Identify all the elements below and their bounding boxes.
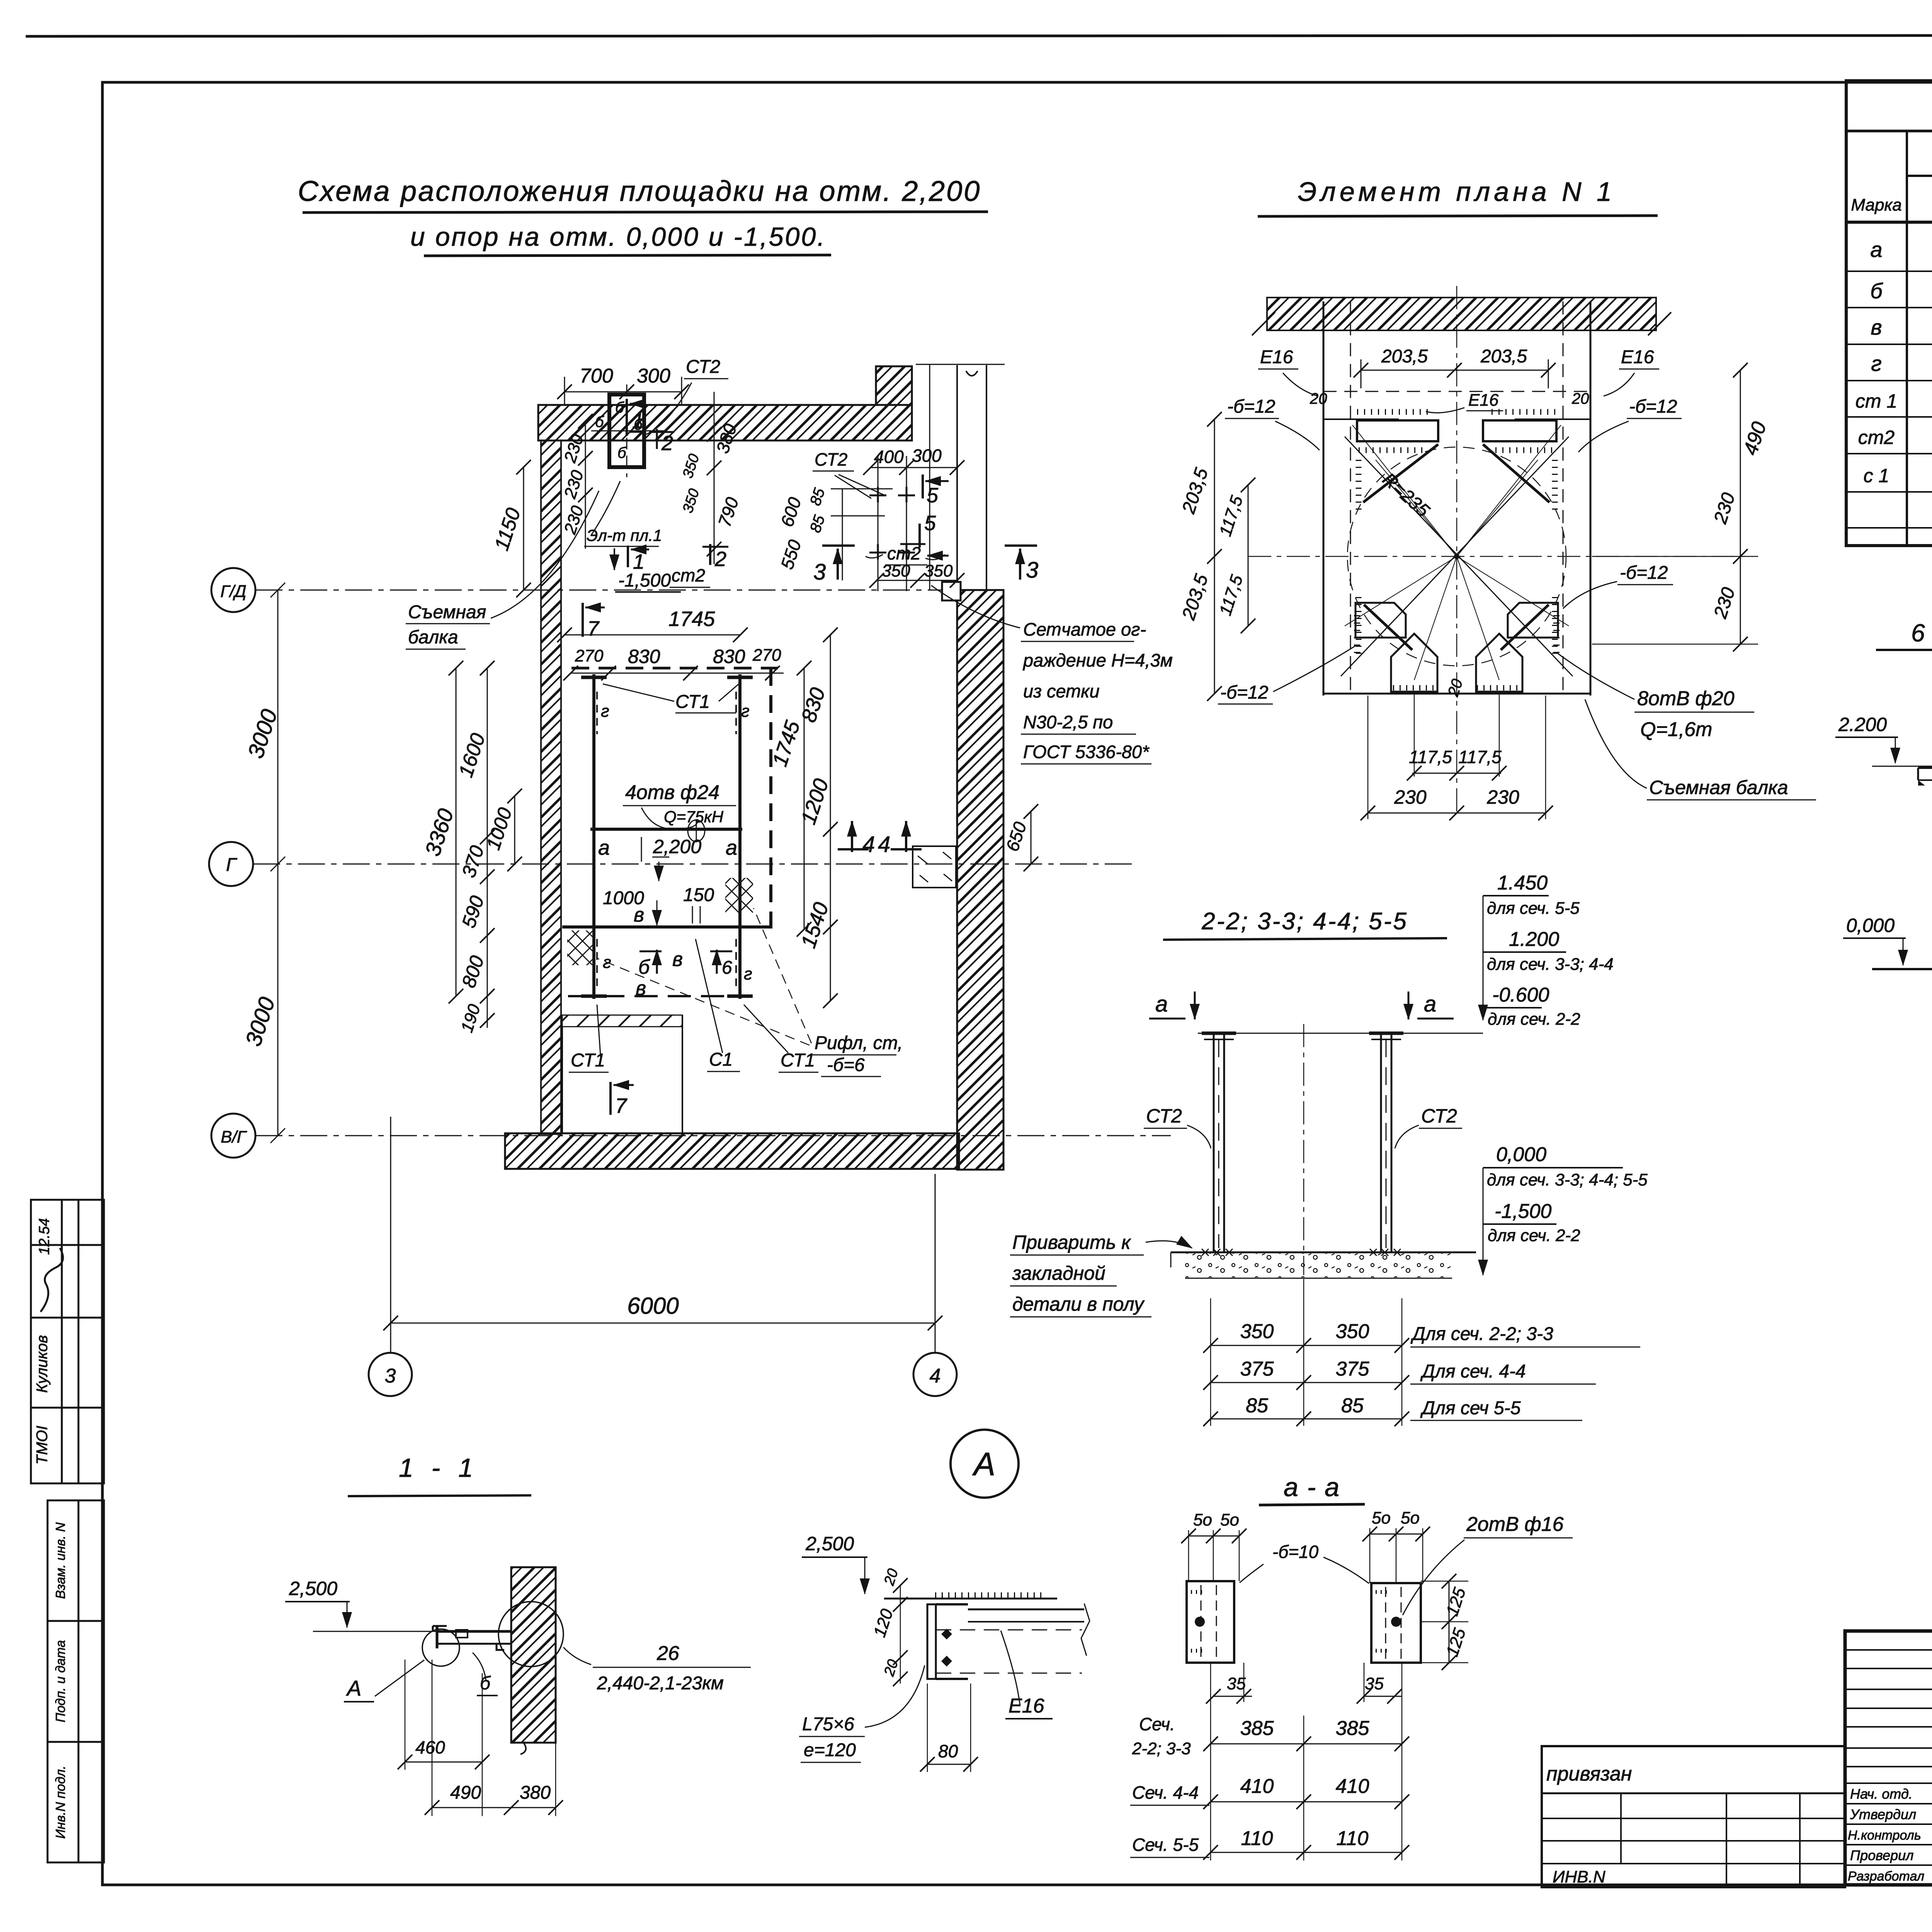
svg-text:3: 3 bbox=[385, 1365, 396, 1387]
svg-text:Разработал: Разработал bbox=[1848, 1869, 1924, 1884]
svg-text:2,200: 2,200 bbox=[653, 836, 701, 857]
svg-text:г: г bbox=[741, 702, 750, 721]
svg-text:в: в bbox=[636, 977, 646, 1000]
svg-text:СТ2: СТ2 bbox=[686, 357, 720, 377]
svg-text:80: 80 bbox=[938, 1741, 958, 1761]
dim 700 300 above mini element bbox=[565, 391, 682, 393]
radial thin rays bbox=[1345, 425, 1569, 680]
svg-text:5: 5 bbox=[924, 512, 936, 535]
svg-text:для сеч. 5-5: для сеч. 5-5 bbox=[1487, 899, 1580, 918]
svg-text:Съемная балка: Съемная балка bbox=[1649, 777, 1788, 798]
svg-text:110: 110 bbox=[1241, 1827, 1273, 1850]
svg-text:0,000: 0,000 bbox=[1496, 1143, 1546, 1166]
svg-text:-б=12: -б=12 bbox=[1227, 396, 1275, 417]
svg-text:270: 270 bbox=[752, 646, 781, 665]
dim 50 50 left bbox=[1189, 1536, 1239, 1537]
svg-text:385: 385 bbox=[1336, 1717, 1370, 1740]
dim 650 rotated bbox=[1031, 811, 1032, 864]
chamfer thick diagonals bbox=[1363, 444, 1438, 502]
svg-text:а - а: а - а bbox=[1284, 1473, 1340, 1502]
svg-text:Схема расположения площадки на: Схема расположения площадки на отм. 2,20… bbox=[298, 175, 981, 207]
svg-text:Подп. и дата: Подп. и дата bbox=[53, 1640, 68, 1723]
svg-text:N30-2,5 по: N30-2,5 по bbox=[1023, 712, 1113, 732]
svg-text:а: а bbox=[598, 836, 610, 859]
bottom dims 117,5 117,5 bbox=[1414, 694, 1415, 777]
svg-text:230: 230 bbox=[1394, 786, 1427, 808]
top wall pilaster bbox=[876, 366, 912, 405]
svg-text:410: 410 bbox=[1240, 1775, 1274, 1798]
svg-text:6 - 6: 6 - 6 bbox=[1911, 619, 1932, 647]
svg-text:5o: 5o bbox=[1220, 1510, 1239, 1529]
g-brace small dashes bbox=[596, 692, 598, 734]
section mark 5 lower bbox=[918, 524, 921, 548]
svg-text:ГОСТ 5336-80*: ГОСТ 5336-80* bbox=[1023, 742, 1150, 762]
svg-text:385: 385 bbox=[1240, 1717, 1274, 1740]
axis circle 4 bbox=[913, 1353, 957, 1396]
svg-text:375: 375 bbox=[1336, 1358, 1370, 1380]
svg-text:Q=75кН: Q=75кН bbox=[664, 808, 724, 826]
svg-text:-б=12: -б=12 bbox=[1220, 682, 1268, 703]
svg-text:ИНВ.N: ИНВ.N bbox=[1553, 1867, 1605, 1886]
left column bbox=[1213, 1033, 1215, 1252]
center dot bbox=[1454, 554, 1459, 559]
top wall band bbox=[538, 405, 912, 440]
svg-text:20: 20 bbox=[1310, 390, 1327, 407]
pentagon plate left bbox=[1391, 634, 1437, 692]
platform bottom edge bbox=[568, 995, 742, 997]
svg-text:С1: С1 bbox=[709, 1049, 733, 1070]
wall corner notch bbox=[942, 582, 961, 600]
svg-text:и опор на отм. 0,000 и -1,500.: и опор на отм. 0,000 и -1,500. bbox=[410, 222, 826, 252]
svg-text:Г: Г bbox=[226, 855, 238, 875]
slab concrete bbox=[1171, 1252, 1476, 1253]
riffle steel cross-hatch squares bbox=[725, 878, 753, 913]
frame horizontals bbox=[1323, 418, 1399, 420]
svg-text:830: 830 bbox=[628, 646, 660, 667]
svg-text:б: б bbox=[617, 444, 627, 461]
svg-text:А: А bbox=[972, 1446, 995, 1482]
svg-text:СТ2: СТ2 bbox=[815, 449, 847, 469]
svg-text:в: в bbox=[1871, 315, 1882, 339]
signature squiggle bbox=[41, 1248, 63, 1312]
svg-text:с 1: с 1 bbox=[1864, 465, 1889, 486]
svg-text:ТМОI: ТМОI bbox=[34, 1426, 51, 1464]
svg-text:ст 1: ст 1 bbox=[1855, 390, 1897, 412]
svg-text:150: 150 bbox=[683, 885, 714, 905]
svg-text:-1,500: -1,500 bbox=[618, 570, 671, 591]
svg-text:А: А bbox=[346, 1676, 361, 1700]
top line with weld hatch bbox=[884, 1598, 1057, 1600]
svg-text:5o: 5o bbox=[1401, 1509, 1420, 1527]
pentagon plate right bbox=[1476, 634, 1522, 692]
svg-text:Куликов: Куликов bbox=[34, 1335, 51, 1393]
svg-text:460: 460 bbox=[415, 1737, 445, 1757]
right dim chain outer 830 1200 1540 bbox=[830, 635, 831, 1001]
section mark 4 left bbox=[851, 821, 853, 852]
svg-text:-б=12: -б=12 bbox=[1629, 396, 1677, 417]
center axes bbox=[1456, 286, 1458, 815]
lower room hatched strip bbox=[562, 1015, 682, 1027]
svg-text:СТ1: СТ1 bbox=[781, 1050, 815, 1071]
svg-text:7: 7 bbox=[615, 1094, 628, 1117]
section mark 7 lower bbox=[609, 1082, 612, 1115]
svg-text:Сетчатое ог-: Сетчатое ог- bbox=[1023, 619, 1146, 639]
svg-text:Сеч. 5-5: Сеч. 5-5 bbox=[1132, 1835, 1199, 1855]
vertical dim 3000/3000 bbox=[270, 583, 285, 1143]
section mark 4 right bbox=[905, 821, 907, 852]
svg-text:СТ1: СТ1 bbox=[675, 692, 710, 712]
dim 270 830 830 270 bbox=[571, 673, 784, 674]
dim 1150 bbox=[523, 467, 524, 590]
right dim chain inner 1745 bbox=[804, 668, 805, 929]
svg-text:а: а bbox=[726, 836, 737, 859]
svg-text:1 - 1: 1 - 1 bbox=[399, 1453, 478, 1483]
right wall bbox=[957, 590, 1003, 1170]
section mark 3 right bbox=[1019, 549, 1021, 580]
svg-text:-б=10: -б=10 bbox=[1272, 1542, 1319, 1562]
svg-text:Сеч. 4-4: Сеч. 4-4 bbox=[1132, 1782, 1199, 1803]
svg-text:26: 26 bbox=[656, 1642, 679, 1665]
svg-text:-б=12: -б=12 bbox=[1620, 563, 1668, 583]
ground line bbox=[1872, 968, 1932, 970]
sheet outer border top bbox=[27, 35, 1932, 36]
svg-text:3: 3 bbox=[813, 560, 826, 585]
column cap marks bbox=[581, 676, 607, 679]
dim 6000 bbox=[391, 1323, 935, 1324]
svg-text:а: а bbox=[1870, 237, 1882, 262]
svg-text:Рифл, ст,: Рифл, ст, bbox=[815, 1033, 903, 1053]
left margin stamp table upper bbox=[31, 1200, 104, 1483]
svg-text:2,440-2,1-23км: 2,440-2,1-23км bbox=[597, 1673, 724, 1694]
section mark 2 right of mini element bbox=[656, 429, 658, 449]
axis circle G bbox=[209, 842, 253, 886]
beam bbox=[437, 1630, 511, 1633]
svg-text:Приварить к: Приварить к bbox=[1012, 1231, 1131, 1253]
svg-text:350: 350 bbox=[1336, 1320, 1369, 1343]
frame verticals bbox=[1323, 301, 1325, 696]
section mark 2 lower bbox=[709, 544, 711, 565]
svg-text:Для сеч. 2-2; 3-3: Для сеч. 2-2; 3-3 bbox=[1410, 1324, 1553, 1344]
small T symbols bbox=[869, 487, 886, 502]
svg-text:4: 4 bbox=[930, 1365, 941, 1387]
svg-text:Нач. отд.: Нач. отд. bbox=[1850, 1786, 1913, 1802]
beam v bbox=[562, 925, 772, 929]
svg-text:закладной: закладной bbox=[1012, 1262, 1105, 1284]
svg-text:Е16: Е16 bbox=[1260, 347, 1293, 367]
svg-text:детали в полу: детали в полу bbox=[1012, 1293, 1145, 1315]
svg-text:700: 700 bbox=[580, 365, 613, 387]
svg-text:Проверил: Проверил bbox=[1850, 1847, 1914, 1863]
dim 1000 rotated bbox=[514, 796, 515, 864]
svg-text:е=120: е=120 bbox=[804, 1740, 856, 1760]
svg-text:раждение Н=4,3м: раждение Н=4,3м bbox=[1022, 650, 1173, 670]
svg-text:-1,500: -1,500 bbox=[1495, 1200, 1552, 1223]
dim table a-a bbox=[1210, 1663, 1211, 1861]
svg-text:35: 35 bbox=[1227, 1674, 1246, 1693]
dim 203,5 203,5 top bbox=[1361, 370, 1548, 371]
svg-text:2: 2 bbox=[714, 548, 726, 571]
svg-text:г: г bbox=[744, 964, 752, 983]
svg-text:2,500: 2,500 bbox=[805, 1533, 854, 1554]
svg-text:ст2: ст2 bbox=[887, 543, 921, 563]
svg-text:350: 350 bbox=[924, 561, 953, 580]
svg-text:-0.600: -0.600 bbox=[1492, 984, 1549, 1006]
axis circle G/D bbox=[211, 568, 255, 612]
weld x marks at bases bbox=[1202, 1249, 1233, 1256]
svg-text:375: 375 bbox=[1240, 1358, 1274, 1380]
platform top dashed edge bbox=[571, 667, 778, 670]
section mark 7 upper bbox=[582, 603, 584, 637]
svg-text:85: 85 bbox=[1341, 1395, 1364, 1417]
svg-text:830: 830 bbox=[713, 646, 745, 667]
svg-text:270: 270 bbox=[575, 646, 604, 665]
right dims 490 230 230 bbox=[1740, 370, 1741, 644]
svg-text:для сеч. 2-2: для сеч. 2-2 bbox=[1488, 1010, 1580, 1029]
svg-text:Е16: Е16 bbox=[1468, 391, 1499, 410]
svg-text:20: 20 bbox=[1571, 390, 1589, 407]
section mark 1 top bbox=[626, 399, 628, 436]
left margin stamp table lower bbox=[48, 1500, 104, 1862]
svg-text:4: 4 bbox=[862, 832, 875, 857]
right plate bbox=[1371, 1583, 1421, 1663]
left dim chain 20 120 20 bbox=[900, 1585, 901, 1684]
dim 125 125 bbox=[1449, 1581, 1450, 1663]
svg-text:а: а bbox=[1424, 992, 1436, 1017]
svg-text:-б=6: -б=6 bbox=[827, 1055, 865, 1075]
svg-text:2-2; 3-3; 4-4; 5-5: 2-2; 3-3; 4-4; 5-5 bbox=[1201, 908, 1408, 935]
section mark b up-right bbox=[716, 950, 718, 974]
svg-text:Для сеч 5-5: Для сеч 5-5 bbox=[1420, 1398, 1521, 1418]
upper wall thin edges above plan bbox=[956, 365, 958, 590]
svg-text:2.200: 2.200 bbox=[1838, 714, 1887, 735]
svg-text:L75×6: L75×6 bbox=[802, 1714, 854, 1735]
svg-text:350: 350 bbox=[1240, 1320, 1274, 1343]
top level line bbox=[1198, 1033, 1483, 1034]
svg-text:г: г bbox=[601, 702, 609, 721]
svg-text:а: а bbox=[1155, 992, 1168, 1017]
svg-text:117,5: 117,5 bbox=[1458, 747, 1502, 767]
diagonals X thin bbox=[1345, 437, 1573, 676]
svg-text:б: б bbox=[1870, 279, 1883, 303]
left dim chain 1600 370 590 800 190 bbox=[487, 668, 488, 1028]
section mark b up-left bbox=[656, 950, 658, 974]
lower room walls bbox=[561, 1027, 563, 1133]
top wall strip bbox=[1267, 298, 1656, 330]
svg-text:117,5: 117,5 bbox=[1409, 747, 1452, 767]
svg-text:в: в bbox=[672, 948, 683, 971]
svg-text:410: 410 bbox=[1336, 1775, 1369, 1798]
dims 460 490 380 bbox=[405, 1660, 406, 1770]
section mark 5 upper bbox=[925, 480, 949, 482]
svg-text:5o: 5o bbox=[1193, 1510, 1212, 1529]
hatched column bbox=[511, 1567, 556, 1743]
bottom wall bbox=[505, 1133, 959, 1169]
svg-text:Q=1,6т: Q=1,6т bbox=[1640, 718, 1712, 741]
svg-text:380: 380 bbox=[520, 1782, 551, 1803]
left dims 203,5 117,5 117,5 203,5 bbox=[1214, 419, 1215, 694]
svg-text:2: 2 bbox=[661, 432, 673, 455]
svg-text:Н.контроль: Н.контроль bbox=[1848, 1828, 1921, 1843]
top gusset left bbox=[1357, 420, 1438, 441]
svg-text:7: 7 bbox=[587, 617, 600, 640]
axis line G/D bbox=[255, 590, 1005, 591]
bottom corner gusset right bbox=[1508, 603, 1558, 638]
dim 50 50 right bbox=[1370, 1534, 1423, 1535]
svg-text:В/Г: В/Г bbox=[221, 1128, 247, 1146]
svg-text:85: 85 bbox=[1246, 1395, 1269, 1417]
axis circle 3 bbox=[369, 1353, 412, 1396]
svg-text:8отВ ф20: 8отВ ф20 bbox=[1637, 687, 1735, 710]
svg-text:400: 400 bbox=[874, 447, 904, 467]
svg-text:1.200: 1.200 bbox=[1509, 928, 1559, 951]
axis 4 vertical bbox=[935, 1174, 936, 1353]
svg-text:1000: 1000 bbox=[603, 888, 644, 908]
bracket shelf bbox=[1918, 767, 1932, 769]
left dim chain 3360 bbox=[456, 668, 457, 996]
svg-text:4отв ф24: 4отв ф24 bbox=[625, 781, 719, 804]
svg-text:300: 300 bbox=[637, 365, 670, 387]
svg-text:СТ2: СТ2 bbox=[1421, 1105, 1457, 1127]
center axis bbox=[1303, 1024, 1304, 1275]
left wall bbox=[541, 440, 561, 1134]
left plate bbox=[1187, 1581, 1234, 1663]
dim 1745 top bbox=[565, 634, 740, 636]
svg-text:г: г bbox=[1871, 351, 1882, 376]
svg-text:б: б bbox=[615, 399, 624, 416]
svg-text:Е16: Е16 bbox=[1621, 347, 1654, 367]
svg-text:5o: 5o bbox=[1372, 1509, 1391, 1527]
section 4 square on wall bbox=[913, 846, 956, 888]
svg-text:6: 6 bbox=[722, 957, 732, 978]
column right bbox=[738, 674, 742, 999]
top gusset right bbox=[1483, 420, 1556, 441]
svg-text:35: 35 bbox=[1365, 1674, 1384, 1693]
beam a bbox=[590, 828, 742, 831]
svg-text:5: 5 bbox=[927, 484, 939, 507]
svg-text:Для сеч. 4-4: Для сеч. 4-4 bbox=[1420, 1361, 1526, 1382]
circle A big bbox=[951, 1430, 1019, 1498]
svg-text:Съемная: Съемная bbox=[408, 602, 486, 622]
svg-text:490: 490 bbox=[450, 1782, 481, 1803]
axis line G bbox=[253, 864, 1132, 865]
svg-text:для сеч. 3-3; 4-4: для сеч. 3-3; 4-4 bbox=[1487, 955, 1614, 974]
platform right dashed edge bbox=[769, 668, 772, 928]
svg-text:Г/Д: Г/Д bbox=[220, 582, 246, 601]
svg-text:из сетки: из сетки bbox=[1023, 681, 1100, 701]
svg-text:Сеч.: Сеч. bbox=[1139, 1714, 1175, 1734]
svg-text:Утвердил: Утвердил bbox=[1850, 1806, 1916, 1822]
svg-text:0,000: 0,000 bbox=[1846, 915, 1895, 936]
svg-text:6000: 6000 bbox=[627, 1293, 679, 1319]
beam lines right bbox=[968, 1609, 1084, 1611]
svg-text:Эл-т пл.1: Эл-т пл.1 bbox=[587, 526, 662, 544]
right small dims 380 790 bbox=[714, 392, 715, 564]
svg-text:110: 110 bbox=[1337, 1827, 1369, 1850]
svg-text:Инв.N подл.: Инв.N подл. bbox=[53, 1765, 68, 1838]
axis circle V/G bbox=[211, 1114, 255, 1158]
svg-text:балка: балка bbox=[408, 627, 458, 648]
right column bbox=[1380, 1033, 1382, 1252]
svg-text:203,5: 203,5 bbox=[1381, 346, 1428, 367]
svg-text:1: 1 bbox=[633, 550, 645, 573]
svg-text:203,5: 203,5 bbox=[1480, 346, 1527, 367]
axis 3 vertical bbox=[390, 1117, 391, 1353]
svg-text:СТ2: СТ2 bbox=[1146, 1105, 1182, 1127]
svg-text:б: б bbox=[638, 956, 650, 978]
svg-text:Элемент плана N 1: Элемент плана N 1 bbox=[1298, 177, 1616, 207]
bottom dims 230 230 bbox=[1367, 696, 1369, 819]
svg-text:Взам. инв. N: Взам. инв. N bbox=[53, 1522, 68, 1599]
svg-text:2-2; 3-3: 2-2; 3-3 bbox=[1132, 1739, 1191, 1758]
svg-text:б: б bbox=[595, 413, 604, 430]
svg-text:230: 230 bbox=[1486, 786, 1519, 808]
svg-text:4: 4 bbox=[878, 832, 890, 857]
svg-text:для сеч. 3-3; 4-4; 5-5: для сеч. 3-3; 4-4; 5-5 bbox=[1487, 1170, 1648, 1189]
section mark 1 lower with -1,500 bbox=[614, 548, 615, 570]
dims 550 600 rotated left of cluster bbox=[842, 489, 843, 580]
dashed circle R235 bbox=[1347, 447, 1566, 666]
svg-text:для сеч. 2-2: для сеч. 2-2 bbox=[1488, 1226, 1580, 1245]
svg-text:1745: 1745 bbox=[668, 607, 715, 631]
svg-text:12.54: 12.54 bbox=[36, 1218, 53, 1255]
svg-text:Марка: Марка bbox=[1851, 196, 1901, 214]
bottom dim rows bbox=[1210, 1298, 1211, 1426]
bottom corner gusset left bbox=[1355, 603, 1406, 638]
svg-text:300: 300 bbox=[912, 446, 942, 466]
svg-text:Е16: Е16 bbox=[1009, 1695, 1044, 1717]
column left bbox=[592, 674, 595, 999]
serrated side strips bbox=[1356, 460, 1362, 514]
axis line V/G bbox=[255, 1135, 1171, 1136]
svg-text:2,500: 2,500 bbox=[289, 1578, 337, 1599]
svg-text:2отВ ф16: 2отВ ф16 bbox=[1466, 1513, 1564, 1536]
svg-text:1: 1 bbox=[632, 410, 644, 433]
svg-text:350: 350 bbox=[882, 561, 910, 580]
dims 230 column left of mini element bbox=[585, 421, 586, 549]
svg-text:привязан: привязан bbox=[1546, 1763, 1632, 1785]
svg-text:3: 3 bbox=[1026, 558, 1038, 583]
svg-text:ст2: ст2 bbox=[1858, 427, 1895, 448]
section mark 3 left bbox=[837, 549, 839, 580]
detail circles bbox=[422, 1629, 459, 1666]
svg-text:1.450: 1.450 bbox=[1497, 872, 1548, 894]
bracket channel bbox=[927, 1604, 936, 1679]
svg-text:ст2: ст2 bbox=[672, 565, 705, 585]
